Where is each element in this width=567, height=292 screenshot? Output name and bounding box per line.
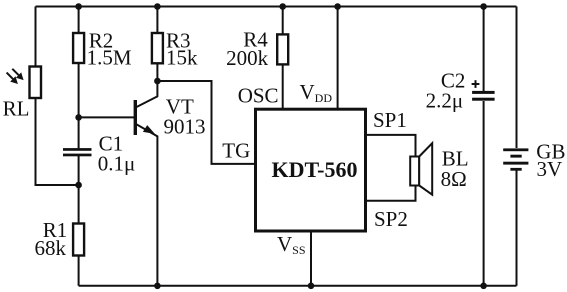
node bottom junction VSS [308,283,315,290]
svg-text:TG: TG [222,139,250,163]
speaker BL driver rectangle [410,157,419,186]
node top junction R2 [75,3,82,10]
wire VSS to bottom bus [310,232,312,286]
wire R3 branch [156,7,158,97]
resistor R4 [277,34,288,64]
plus sign of C2 polarity [472,80,480,88]
capacitor C2 [472,91,495,101]
wire C1 to R1 to bottom [78,156,80,286]
wire battery to bottom bus [516,171,518,286]
wire C2 branch lower [483,101,485,286]
node top junction R4 [279,3,286,10]
transistor VT base bar [134,100,137,135]
battery GB plates [503,148,528,170]
wire SP1 to speaker [367,135,416,157]
svg-text:2.2μ: 2.2μ [426,89,464,113]
wire top bus to battery (right side down) [516,7,518,149]
resistor R1 [73,224,84,256]
wire RL branch vertical [36,7,79,186]
node top junction C2 [480,3,487,10]
node collector junction [154,78,161,85]
capacitor C1 [63,148,92,156]
transistor VT collector [136,96,158,107]
speaker BL cone [419,143,432,195]
svg-text:15k: 15k [166,46,198,70]
node top junction R3 [154,3,161,10]
wire TG net from collector node to IC [157,81,254,164]
svg-text:SP1: SP1 [373,108,407,132]
svg-text:9013: 9013 [164,115,206,139]
wire R2/C1/R1 branch upper [78,7,80,149]
wire C2 branch upper [483,7,485,92]
wire bottom ground bus [79,285,517,287]
IC U1 KDT-560 box [256,109,366,231]
svg-text:0.1μ: 0.1μ [98,151,136,175]
svg-text:KDT-560: KDT-560 [272,157,358,182]
svg-text:SP2: SP2 [374,207,408,231]
transistor VT emitter with arrow [136,124,158,136]
node base junction [75,114,82,121]
wire OSC / R4 branch [282,7,284,110]
node C1-R1-RL junction [75,182,82,189]
photoresistor RL [7,67,41,99]
wire SP2 to speaker [367,185,416,201]
svg-text:8Ω: 8Ω [441,167,467,191]
svg-text:200k: 200k [226,46,269,70]
wire top supply bus [36,6,517,8]
resistor R3 [152,33,163,63]
svg-text:RL: RL [3,96,30,120]
svg-text:1.5M: 1.5M [87,46,132,70]
svg-text:3V: 3V [537,157,563,181]
svg-text:68k: 68k [35,236,67,260]
node top junction VDD [334,3,341,10]
wire base of VT [79,116,134,118]
wire VDD branch [337,7,339,110]
node bottom junction emitter [154,283,161,290]
node bottom junction C2 [480,283,487,290]
svg-text:OSC: OSC [238,83,279,107]
resistor R2 [73,33,84,63]
wire emitter to bottom bus [156,136,158,286]
